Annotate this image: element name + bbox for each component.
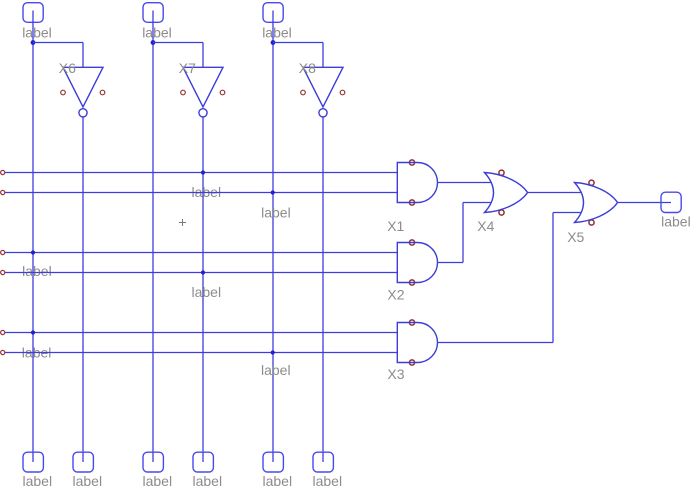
junction node at (272.7,352.5) xyxy=(271,350,275,354)
terminal TOP2 xyxy=(143,3,163,23)
or-gate X4 xyxy=(485,173,528,213)
junction node at (272.7,192.5) xyxy=(271,190,275,194)
wire X4 output to X5 top input xyxy=(528,192,582,194)
terminal B5 xyxy=(263,452,283,472)
wire (83,42.5) down to X6 input xyxy=(82,43,84,68)
svg-text:X6: X6 xyxy=(59,60,76,76)
net input pin circle 4 (left edge) xyxy=(1,270,5,274)
inverter X6 right pin circle xyxy=(100,90,105,95)
svg-text:label: label xyxy=(193,473,223,489)
junction node at (33,332.5) xyxy=(31,330,35,334)
terminal B1 xyxy=(23,452,43,472)
or-gate X5 bottom pin circle xyxy=(589,220,594,225)
terminal TOP1 xyxy=(23,3,43,23)
inverter X8 right pin circle xyxy=(340,90,345,95)
svg-text:label: label xyxy=(73,473,103,489)
svg-text:X2: X2 xyxy=(387,286,404,302)
wire (203,42.5) down to X7 input xyxy=(202,43,204,68)
wire riser2 up from X3 output xyxy=(552,213,554,343)
or-gate X5 xyxy=(575,183,618,223)
and-gate X1 xyxy=(397,163,437,203)
wire riser up from X2 output xyxy=(462,203,464,263)
wire bus5 y=332.5 xyxy=(5,332,398,334)
wire column x=33 from TOP1 down to bottom terminal B1 xyxy=(32,11,34,463)
net input pin circle 1 (left edge) xyxy=(1,170,5,174)
or-gate X5 top pin circle xyxy=(589,180,594,185)
net input pin circle 2 (left edge) xyxy=(1,190,5,194)
svg-text:label: label xyxy=(261,204,291,220)
junction node at (273,42.5) xyxy=(271,40,276,45)
svg-text:label: label xyxy=(22,24,52,40)
wire X1 output to X4 top input xyxy=(438,182,492,184)
wire bus6 y=352.5 xyxy=(5,352,398,354)
and-gate X2 bottom pin circle xyxy=(409,280,414,285)
wire riser2 to X5 bottom input xyxy=(553,212,581,214)
svg-text:X1: X1 xyxy=(387,218,404,234)
svg-text:label: label xyxy=(262,24,292,40)
inverter X6 xyxy=(63,67,103,107)
junction node at (33,42.5) xyxy=(31,40,36,45)
inverter X6 left pin circle xyxy=(61,90,66,95)
wire bus2 y=192.5 xyxy=(5,192,398,194)
svg-text:label: label xyxy=(23,473,53,489)
wire X6 output down to bottom terminal B2 xyxy=(82,117,84,462)
and-gate X2 xyxy=(397,243,437,283)
wire bus3 y=252.5 xyxy=(5,252,398,254)
svg-text:X3: X3 xyxy=(387,366,404,382)
net input pin circle 6 (left edge) xyxy=(1,350,5,354)
wire X5 output to output terminal xyxy=(618,202,671,204)
wire (323,42.5) down to X8 input xyxy=(322,43,324,68)
or-gate X4 bottom pin circle xyxy=(499,210,504,215)
wire X7 output down to bottom terminal B4 xyxy=(202,117,204,462)
svg-text:label: label xyxy=(22,263,52,279)
svg-text:label: label xyxy=(192,284,222,300)
svg-text:X5: X5 xyxy=(567,229,584,245)
or-gate X4 top pin circle xyxy=(499,170,504,175)
svg-text:label: label xyxy=(142,24,172,40)
svg-text:label: label xyxy=(263,473,293,489)
terminal B4 xyxy=(193,452,213,472)
svg-text:label: label xyxy=(661,213,691,229)
terminal B6 xyxy=(313,452,333,472)
inverter X7 output bubble xyxy=(199,109,207,117)
wire riser to X4 bottom input xyxy=(463,202,491,204)
svg-text:X7: X7 xyxy=(179,60,196,76)
wire column x=153 from TOP2 down to bottom terminal B3 xyxy=(152,11,154,463)
junction node at (203,272.5) xyxy=(201,270,205,274)
terminal B3 xyxy=(143,452,163,472)
svg-text:X4: X4 xyxy=(477,218,494,234)
net input pin circle 5 (left edge) xyxy=(1,330,5,334)
svg-text:label: label xyxy=(313,473,343,489)
wire column x=273 from TOP3 down to bottom terminal B5 xyxy=(272,11,274,463)
junction node at (33,252.5) xyxy=(31,250,35,254)
inverter X6 output bubble xyxy=(79,109,87,117)
svg-text:label: label xyxy=(143,473,173,489)
wire bus1 y=172.5 xyxy=(5,172,398,174)
inverter X8 xyxy=(303,67,343,107)
wire branch (153,42.5) to (203,42.5) xyxy=(153,42,203,44)
wire bus4 y=272.5 xyxy=(5,272,398,274)
inverter X7 right pin circle xyxy=(220,90,225,95)
wire branch (273,42.5) to (323,42.5) xyxy=(273,42,323,44)
and-gate X3 xyxy=(397,323,437,363)
net input pin circle 3 (left edge) xyxy=(1,250,5,254)
and-gate X1 top pin circle xyxy=(409,160,414,165)
terminal TOP3 xyxy=(263,3,283,23)
origin cross marker xyxy=(179,219,186,226)
inverter X7 xyxy=(183,67,223,107)
and-gate X2 top pin circle xyxy=(409,240,414,245)
svg-text:X8: X8 xyxy=(299,60,316,76)
terminal OUT xyxy=(661,192,681,212)
terminal B2 xyxy=(73,452,93,472)
and-gate X1 bottom pin circle xyxy=(409,200,414,205)
wire X2 output to riser xyxy=(438,262,464,264)
wire branch (33,42.5) to (83,42.5) xyxy=(33,42,83,44)
wire X8 output down to bottom terminal B6 xyxy=(322,117,324,462)
and-gate X3 top pin circle xyxy=(409,320,414,325)
and-gate X3 bottom pin circle xyxy=(409,360,414,365)
inverter X8 left pin circle xyxy=(301,90,306,95)
junction node at (203,172.5) xyxy=(201,170,205,174)
wire X3 output to riser2 xyxy=(438,342,554,344)
svg-text:label: label xyxy=(261,362,291,378)
junction node at (153,42.5) xyxy=(151,40,156,45)
inverter X8 output bubble xyxy=(319,109,327,117)
inverter X7 left pin circle xyxy=(181,90,186,95)
